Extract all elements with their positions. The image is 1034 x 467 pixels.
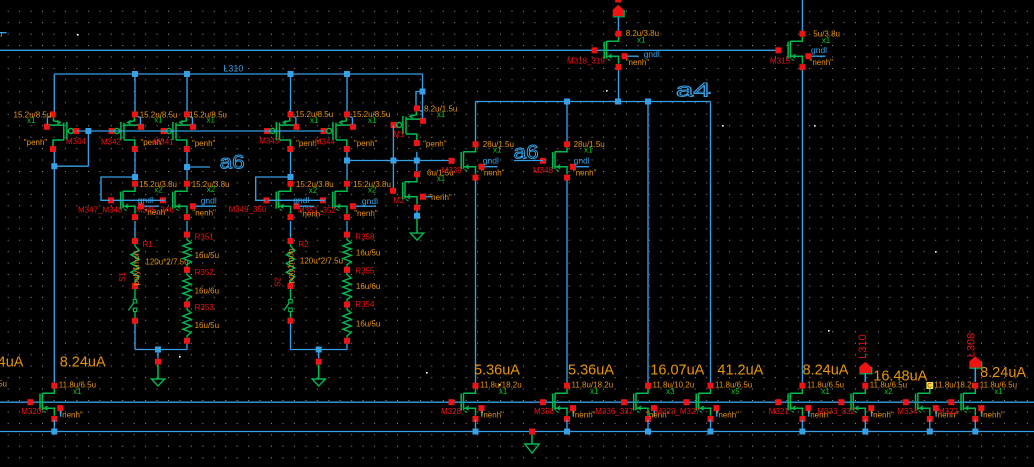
- svg-text:8.24uA: 8.24uA: [60, 355, 106, 371]
- svg-text:a4: a4: [676, 81, 712, 102]
- resistor R352: [183, 267, 191, 308]
- svg-text:x1: x1: [207, 116, 216, 125]
- wire top gate bus y=49 (to M318/M315 gates): [0, 49, 780, 51]
- svg-text:gndl: gndl: [201, 196, 217, 206]
- nmos M345_346: [160, 181, 216, 220]
- svg-text:"nenh": "nenh": [481, 410, 505, 419]
- svg-text:gndl: gndl: [811, 45, 827, 55]
- junction on L310 at x=187: [184, 71, 190, 77]
- label M334 model: [935, 410, 959, 419]
- label M334 value: [934, 381, 976, 390]
- svg-text:M304: M304: [66, 137, 87, 146]
- svg-text:x1: x1: [822, 36, 831, 45]
- wire right vertical top: [801, 0, 803, 31]
- wire M1 source down: [416, 152, 418, 171]
- label R351 value: [195, 251, 219, 260]
- svg-text:S2: S2: [274, 277, 283, 287]
- name M344: [315, 138, 336, 147]
- name R355: [355, 267, 375, 276]
- svg-text:u: u: [0, 30, 2, 39]
- svg-text:poly1moh: poly1moh: [287, 249, 296, 284]
- nmos M333_332: [838, 383, 874, 422]
- label M333_332 mult: [884, 387, 893, 396]
- wire M358 source to bus2: [566, 420, 568, 432]
- nmos M334: [903, 383, 939, 422]
- svg-text:8.24uA: 8.24uA: [980, 365, 1026, 381]
- name M328: [441, 407, 462, 416]
- ground bottom: [525, 435, 539, 454]
- resistor R2: [286, 238, 294, 289]
- svg-text:"nenh": "nenh": [980, 410, 1004, 419]
- label R1 model rotated: [132, 251, 141, 286]
- svg-text:M322: M322: [938, 407, 959, 416]
- label M339 value: [483, 140, 514, 149]
- label M315 value: [813, 30, 840, 39]
- svg-text:R351: R351: [195, 233, 215, 242]
- name M333_332: [817, 407, 855, 416]
- wire diode drop x=88.4: [54, 131, 88, 166]
- label M348 value: [574, 140, 605, 149]
- svg-text:"penh": "penh": [24, 138, 48, 147]
- current label 4uA clipped: [0, 355, 24, 371]
- label M342 model: [140, 138, 164, 147]
- nmos M318_319: [592, 31, 639, 70]
- current label 41.2uA: [717, 363, 763, 379]
- label M348 model: [573, 169, 597, 178]
- wire colA nmos source to R1: [134, 221, 136, 238]
- label M336_337 mult: [666, 387, 675, 396]
- wire colB nmos source to R351: [186, 221, 188, 232]
- svg-text:M2: M2: [393, 196, 405, 205]
- ground cell1: [151, 365, 164, 386]
- label M328 value: [480, 381, 522, 390]
- name M343: [259, 136, 280, 145]
- wire M339 source down: [475, 180, 477, 383]
- svg-text:120u*2/7.5u: 120u*2/7.5u: [300, 256, 343, 265]
- wire colB to gnd loop: [186, 344, 188, 350]
- nmos M315: [775, 31, 825, 70]
- label M1 model: [423, 139, 447, 148]
- label M318_319 model: [626, 58, 650, 67]
- label M358 mult: [590, 387, 599, 396]
- wire L310 drop to M341 bulk: [186, 74, 188, 111]
- svg-text:R353: R353: [195, 303, 215, 312]
- nmos M2: [390, 171, 432, 210]
- net label L310: [223, 63, 243, 73]
- junction a4 x=618: [615, 99, 621, 105]
- svg-text:x2: x2: [207, 185, 216, 194]
- pmos M341: [161, 111, 196, 152]
- wire a4 drop x=648: [647, 102, 649, 383]
- net label L310 rotated: [857, 334, 869, 358]
- wire a6 stub: [187, 166, 210, 168]
- svg-text:16.07uA: 16.07uA: [650, 363, 704, 379]
- ground bottom middle: [0, 0, 1, 1]
- current label 8.24uA mid: [803, 363, 849, 379]
- svg-text:M1: M1: [393, 130, 405, 139]
- wire M318 source to a4: [618, 70, 620, 102]
- label R2 value: [300, 256, 343, 265]
- junction on L310 at x=135: [132, 71, 138, 77]
- svg-text:M343: M343: [259, 136, 280, 145]
- vdd symbol top: [613, 5, 625, 17]
- nmos M351_352: [320, 181, 376, 220]
- wire M348 source down: [566, 180, 568, 383]
- label M349_350 x2: [309, 186, 318, 195]
- name M349_350: [229, 205, 267, 214]
- nmos M321: [775, 383, 811, 422]
- svg-text:S1: S1: [118, 272, 127, 282]
- wire bottom gate bus: [0, 401, 1034, 403]
- svg-text:M334: M334: [897, 407, 918, 416]
- wire M315 source down long: [801, 70, 803, 383]
- label M304 x1: [27, 116, 36, 125]
- ground below M2: [410, 219, 423, 240]
- nmos M349_350: [264, 181, 315, 220]
- wire L310 drop to M344 bulk: [346, 74, 348, 111]
- switch S1: [128, 289, 138, 324]
- label R355 value: [356, 282, 380, 291]
- svg-text:R352: R352: [195, 268, 215, 277]
- junction M321 on bus2: [799, 429, 805, 435]
- svg-text:M348: M348: [533, 166, 554, 175]
- pin at top edge above vdd: [615, 0, 621, 3]
- svg-text:M318_319: M318_319: [567, 57, 605, 66]
- net label gndl cell2 right: [362, 196, 378, 206]
- label M323_M327 value: [715, 381, 752, 390]
- label M347_M348 x2: [154, 185, 163, 194]
- svg-text:16u/5u: 16u/5u: [356, 319, 380, 328]
- junction on L310 at x=290.5: [288, 71, 294, 77]
- net label gndl M339: [483, 156, 499, 166]
- switch S2: [284, 289, 294, 324]
- label M315 x1: [822, 36, 831, 45]
- svg-text:"nenh": "nenh": [59, 410, 83, 419]
- wire L310 drop to M1: [422, 74, 424, 117]
- name S2 rotated: [274, 277, 283, 287]
- net label a6 second: [514, 142, 539, 163]
- svg-text:x1: x1: [437, 174, 446, 183]
- label M315 model: [810, 58, 834, 67]
- svg-text:16u/6u: 16u/6u: [356, 282, 380, 291]
- name M322: [938, 407, 959, 416]
- resistor R351: [183, 232, 191, 273]
- wire stub top-left with clipped net label: [0, 30, 7, 39]
- svg-text:x1: x1: [493, 146, 502, 155]
- name M351_352: [298, 206, 336, 215]
- label M344 x1: [368, 116, 377, 125]
- svg-text:gndl: gndl: [483, 156, 499, 166]
- label R358 value: [356, 249, 380, 258]
- wire a4 rail: [476, 101, 711, 103]
- name M339: [442, 166, 463, 175]
- nmos M336_337: [621, 383, 657, 422]
- svg-text:a6: a6: [514, 142, 539, 163]
- current label 5.36uA second: [568, 363, 614, 379]
- nmos M322: [948, 383, 984, 422]
- svg-text:M358: M358: [534, 407, 555, 416]
- label M320 model: [59, 410, 83, 419]
- resistor R355: [343, 267, 351, 308]
- svg-text:x1: x1: [27, 116, 36, 125]
- svg-text:x3: x3: [666, 387, 675, 396]
- wire colA to gnd loop: [134, 324, 136, 350]
- junction M358 on bus2: [564, 429, 570, 435]
- junction cell2 left: [288, 174, 294, 180]
- label M341 model: [192, 139, 216, 148]
- wire M321 source to bus2: [801, 420, 803, 432]
- label R2 model rotated: [287, 249, 296, 284]
- svg-text:C: C: [927, 383, 932, 390]
- svg-text:M339: M339: [442, 166, 463, 175]
- junction M334 on bus2: [927, 429, 933, 435]
- vdd symbol L310: [859, 362, 872, 374]
- label M342 value: [140, 110, 178, 119]
- svg-text:x1: x1: [499, 387, 508, 396]
- current label 16.07uA: [650, 363, 704, 379]
- ground cell2: [312, 365, 325, 386]
- label M344 value: [353, 110, 391, 119]
- svg-text:x2: x2: [309, 186, 318, 195]
- label M347_M348 value: [139, 180, 177, 189]
- name M358: [534, 407, 555, 416]
- label R354 value: [356, 319, 380, 328]
- label M322 model: [980, 410, 1004, 419]
- label R352 value: [195, 286, 219, 295]
- wire L310 drop to M342 bulk: [134, 74, 136, 111]
- junction gnd loop cell2: [316, 347, 322, 353]
- svg-text:M336_337: M336_337: [595, 407, 633, 416]
- junction at (393,160): [390, 158, 396, 164]
- junction M333_332 on bus2: [862, 429, 868, 435]
- resistor R353: [183, 302, 191, 344]
- label M322 mult: [994, 387, 1003, 396]
- junction a4 x=567: [564, 99, 570, 105]
- resistor R1: [131, 238, 139, 289]
- net label a6 first: [220, 153, 245, 174]
- svg-text:16u/6u: 16u/6u: [195, 286, 219, 295]
- label M343 model: [296, 139, 320, 148]
- pin nmos M347 source: [0, 0, 1, 1]
- svg-text:8.24uA: 8.24uA: [0, 355, 24, 371]
- wire cell1 gate: [113, 199, 165, 201]
- label M320 value: [59, 381, 96, 390]
- pmos M342: [109, 111, 144, 152]
- svg-text:x1: x1: [590, 387, 599, 396]
- wire M342 source to M347 drain: [134, 152, 136, 181]
- wire colD to gnd loop: [346, 344, 348, 350]
- wire a6 stub 2: [514, 160, 543, 162]
- name M318_319: [567, 57, 605, 66]
- svg-text:"nenh": "nenh": [145, 208, 169, 217]
- svg-text:x1: x1: [368, 116, 377, 125]
- pin gnd cell1: [155, 359, 161, 365]
- junction cell1 left: [132, 174, 138, 180]
- label M333_332 model: [870, 410, 894, 419]
- wire M1/M2 gate vertical: [392, 125, 394, 187]
- name M315: [770, 57, 791, 66]
- wire M341 source down: [186, 152, 188, 181]
- svg-text:"nenh": "nenh": [428, 193, 452, 202]
- label M358 value: [572, 381, 614, 390]
- wire mirror row y=160.5: [347, 160, 452, 162]
- wire a4 drop x=710.5: [710, 102, 712, 383]
- wire colC nmos source to R2: [290, 221, 292, 238]
- net label gndl M315: [811, 45, 827, 55]
- svg-text:M342: M342: [101, 138, 122, 147]
- junction at (417,160): [414, 158, 420, 164]
- wire colC to gnd loop: [290, 324, 292, 350]
- junction on L310 at x=347: [344, 71, 350, 77]
- svg-text:"nenh": "nenh": [573, 169, 597, 178]
- wire a4 drop M339: [475, 102, 477, 142]
- wire M320 source to bus2: [53, 420, 55, 432]
- junction M323_M327 on bus2: [708, 429, 714, 435]
- svg-text:R354: R354: [355, 300, 375, 309]
- nmos M347_M348: [108, 181, 159, 220]
- marker highlighted drain pin M334: [926, 382, 933, 390]
- name M341: [154, 138, 175, 147]
- label nenh cell2 right: [354, 209, 378, 218]
- wire vdd to M333 drain: [864, 373, 866, 382]
- svg-text:5.36uA: 5.36uA: [474, 363, 520, 379]
- label M341 value: [189, 110, 227, 119]
- svg-text:16u/5u: 16u/5u: [356, 249, 380, 258]
- nmos M323_M327: [684, 383, 720, 422]
- name M336_337: [595, 407, 633, 416]
- svg-text:x2: x2: [884, 387, 893, 396]
- label M349_350 value: [296, 180, 334, 189]
- svg-text:R1: R1: [143, 240, 154, 249]
- wire cell1 diode loop: [101, 177, 135, 200]
- wire gnd loop cell1: [135, 350, 187, 359]
- wire M334 source to bus2: [929, 420, 931, 432]
- svg-text:L310: L310: [223, 63, 243, 73]
- label M343 value: [295, 110, 333, 119]
- junction at (54,166): [51, 163, 57, 169]
- name M321: [769, 407, 790, 416]
- resistor R354: [343, 302, 351, 344]
- name M1: [393, 130, 405, 139]
- wire M333_332 source to bus2: [864, 420, 866, 432]
- svg-text:x2: x2: [368, 186, 377, 195]
- svg-text:x1: x1: [310, 116, 319, 125]
- label M339 model: [481, 169, 505, 178]
- name M334: [897, 407, 918, 416]
- net label gndl cell2: [293, 195, 309, 205]
- svg-text:x1: x1: [821, 387, 830, 396]
- svg-text:L308: L308: [966, 333, 978, 357]
- name S1 rotated: [118, 272, 127, 282]
- name M348: [533, 166, 554, 175]
- junction cell2 right: [344, 158, 350, 164]
- label M328 mult: [499, 387, 508, 396]
- junction cell1 right (a6): [184, 164, 190, 170]
- label nenh cell1 right: [192, 209, 216, 218]
- svg-text:R358: R358: [355, 233, 375, 242]
- wire vdd to M318 drain: [617, 17, 619, 31]
- svg-text:6.5u: 6.5u: [0, 379, 7, 388]
- wire L310 top rail: [54, 73, 422, 75]
- label M345_346 value: [192, 180, 230, 189]
- net label gndl cell1 right: [201, 196, 217, 206]
- label M336_337 model: [646, 410, 670, 419]
- label M345_346 overlap name: [136, 205, 174, 214]
- svg-text:gndl: gndl: [362, 196, 378, 206]
- svg-text:gndl: gndl: [574, 156, 590, 166]
- svg-text:x1: x1: [437, 110, 446, 119]
- svg-text:5.36uA: 5.36uA: [568, 363, 614, 379]
- label M323_M327 mult: [731, 387, 740, 396]
- svg-text:M349_350: M349_350: [229, 205, 267, 214]
- svg-text:M347_M348: M347_M348: [78, 206, 123, 215]
- svg-text:"penh": "penh": [423, 139, 447, 148]
- nmos M328: [449, 383, 485, 422]
- nmos M339: [449, 141, 498, 180]
- svg-text:a6: a6: [220, 153, 245, 174]
- label nenh cell2 left: [300, 210, 324, 219]
- svg-text:R355: R355: [355, 267, 375, 276]
- svg-text:M333_332: M333_332: [817, 407, 855, 416]
- name M323_M327: [655, 407, 700, 416]
- wire M336_337 source to bus2: [647, 420, 649, 432]
- svg-text:41.2uA: 41.2uA: [717, 363, 763, 379]
- name M320: [21, 407, 42, 416]
- wire pmos common gate rail y=131: [77, 130, 324, 132]
- label clipped 6.5u left edge: [0, 379, 7, 388]
- svg-text:11.8u/18.2u: 11.8u/18.2u: [934, 381, 976, 390]
- svg-text:x1: x1: [994, 387, 1003, 396]
- svg-text:"penh": "penh": [192, 139, 216, 148]
- wire bottom source bus: [0, 431, 1034, 433]
- name R352: [195, 268, 215, 277]
- pmos M344: [321, 111, 356, 152]
- name M347_M348: [78, 206, 123, 215]
- wire M328 source to bus2: [475, 420, 477, 432]
- svg-text:M315: M315: [770, 57, 791, 66]
- label M333_332 value: [870, 381, 907, 390]
- name M342: [101, 138, 122, 147]
- svg-text:"nenh": "nenh": [626, 58, 650, 67]
- net label a4: [676, 81, 712, 102]
- nmos M320: [27, 383, 63, 422]
- svg-text:M344: M344: [315, 138, 336, 147]
- label M342 x1: [154, 116, 163, 125]
- junction M320 on bus2: [51, 429, 57, 435]
- resistor R358: [343, 232, 351, 273]
- wire branch to M1 bulk: [416, 92, 423, 106]
- label M339 x1: [493, 146, 502, 155]
- svg-text:"nenh": "nenh": [354, 209, 378, 218]
- label M1 x1: [437, 110, 446, 119]
- wire M344 source down: [346, 152, 348, 181]
- junction gnd loop cell1: [155, 347, 161, 353]
- label M341 x1: [207, 116, 216, 125]
- net label gndl M348: [574, 156, 590, 166]
- label M328 model: [481, 410, 505, 419]
- svg-text:"nenh": "nenh": [870, 410, 894, 419]
- wire M343 source to M349 drain: [290, 152, 292, 181]
- pmos M1: [391, 105, 426, 146]
- junction below M2: [414, 213, 420, 219]
- pmos M304: [44, 111, 79, 152]
- pmos M343: [264, 111, 299, 152]
- wire M322 source to bus2: [974, 420, 976, 432]
- name R353: [195, 303, 215, 312]
- svg-text:x1: x1: [154, 116, 163, 125]
- label M336_337 value: [653, 381, 695, 390]
- pin gnd on bus2: [529, 429, 535, 435]
